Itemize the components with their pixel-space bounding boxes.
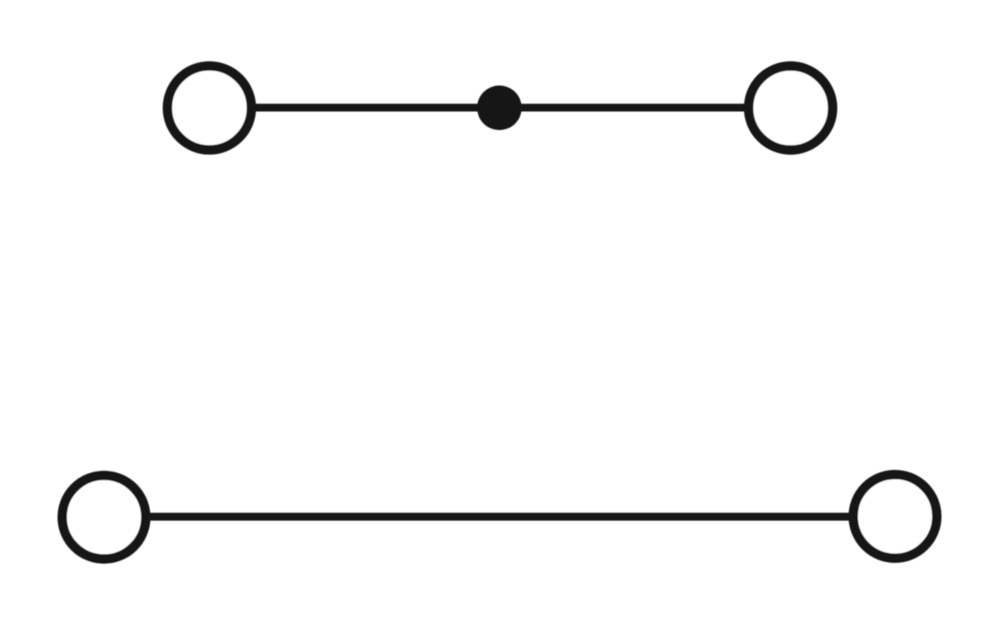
terminal: upper-left clamp point [167,66,251,150]
node: junction dot on upper conductor [477,86,522,131]
wire: upper level conductor [209,104,790,112]
terminal: upper-right clamp point [749,66,833,150]
terminal: lower-left clamp point [62,475,146,559]
wire: lower level conductor [104,513,895,521]
terminal: lower-right clamp point [853,475,937,559]
